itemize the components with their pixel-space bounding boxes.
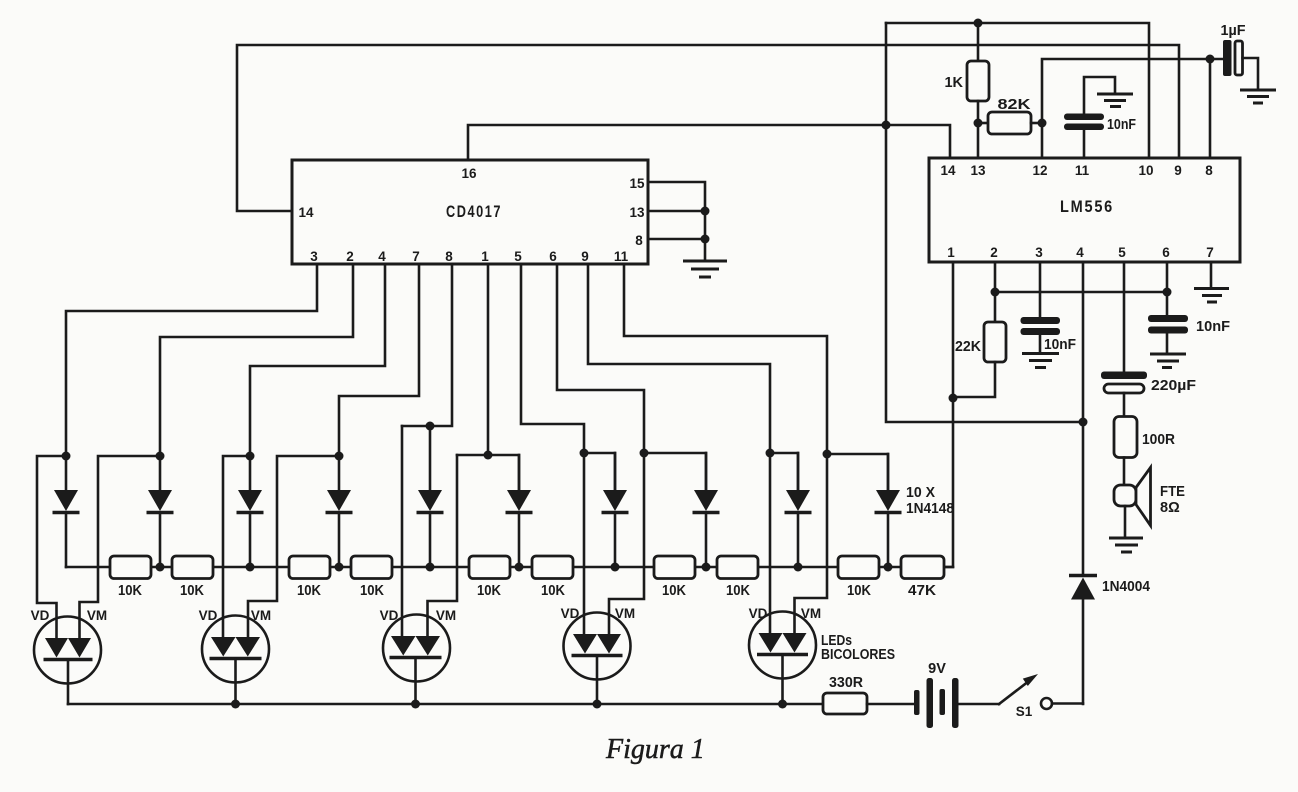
- ground at pin6 cap: [1150, 353, 1186, 356]
- svg-text:S1: S1: [1016, 704, 1033, 719]
- svg-text:7: 7: [1206, 245, 1214, 260]
- svg-text:VD: VD: [561, 606, 580, 621]
- LED4 left chip: [573, 634, 597, 654]
- svg-text:Figura 1: Figura 1: [605, 734, 705, 765]
- node dot bus x706: [702, 563, 711, 572]
- svg-text:10K: 10K: [541, 583, 565, 599]
- LED LED4 bicolor circle: [564, 613, 631, 680]
- svg-text:VM: VM: [251, 608, 271, 623]
- node dot supply junction at pin4 line: [1079, 418, 1088, 427]
- capacitor 10nF at LM556 pin11: [1083, 130, 1086, 158]
- wire LED1 cathode down: [67, 660, 70, 705]
- CD4017 pin8 wire: [648, 238, 705, 241]
- diode D3 1N4148: [249, 456, 252, 490]
- svg-text:10K: 10K: [477, 583, 501, 599]
- wire CD4017 pin2 route to column x160: [160, 264, 353, 456]
- speaker FTE 8ohm: [1123, 458, 1126, 487]
- wire LED4 VD terminal: [583, 453, 586, 638]
- LED1 right chip: [68, 638, 91, 658]
- node dot bottom bus x597: [593, 700, 602, 709]
- resistor R 330R: [823, 693, 867, 714]
- node dot column x519 tap: [484, 451, 493, 460]
- svg-text:10K: 10K: [847, 583, 871, 599]
- resistor R 10K #7: [654, 556, 695, 579]
- svg-text:10K: 10K: [180, 583, 204, 599]
- svg-text:VM: VM: [87, 608, 107, 623]
- node dot bus x888: [884, 563, 893, 572]
- node dot bus x339: [335, 563, 344, 572]
- node dot pin6: [1163, 288, 1172, 297]
- svg-text:15: 15: [629, 176, 645, 191]
- ground at 10nF pin11: [1097, 93, 1133, 96]
- LED5 right chip: [783, 633, 807, 653]
- wire LED4 cathode down: [596, 656, 599, 705]
- svg-text:14: 14: [940, 163, 956, 178]
- svg-text:VD: VD: [749, 606, 768, 621]
- svg-text:10nF: 10nF: [1044, 337, 1076, 353]
- wire cathode ground bus: [68, 703, 823, 706]
- IC U2 LM556 box: [929, 158, 1240, 262]
- wire LED3 VM terminal: [428, 455, 458, 639]
- wire LM556 pin2: [994, 262, 997, 292]
- node dot pin13: [701, 207, 710, 216]
- node dot bus x430: [426, 563, 435, 572]
- diode D4 1N4148: [338, 456, 341, 490]
- svg-text:10K: 10K: [297, 583, 321, 599]
- node dot pin8: [701, 235, 710, 244]
- svg-text:8Ω: 8Ω: [1160, 500, 1180, 516]
- LED3 cathode bar: [390, 656, 442, 660]
- LED3 right chip: [416, 636, 441, 656]
- capacitor 1uF polarized: [1223, 40, 1232, 76]
- svg-text:11: 11: [614, 249, 629, 264]
- node dot tap x644: [640, 449, 649, 458]
- wire battery to switch: [959, 703, 1000, 706]
- diode D8 1N4148: [705, 453, 708, 490]
- resistor R 1K vertical: [977, 23, 980, 61]
- resistor R 47K: [901, 556, 944, 579]
- svg-text:LM556: LM556: [1060, 198, 1114, 216]
- LED2 right chip: [236, 637, 261, 657]
- svg-text:1N4004: 1N4004: [1102, 579, 1150, 595]
- svg-text:82K: 82K: [998, 97, 1032, 113]
- svg-text:VM: VM: [801, 606, 821, 621]
- node dot column x250: [246, 452, 255, 461]
- resistor R 82K horizontal: [978, 122, 988, 125]
- svg-text:1: 1: [481, 249, 489, 264]
- LED4 cathode bar: [572, 654, 623, 658]
- svg-text:2: 2: [990, 245, 998, 260]
- svg-text:5: 5: [1118, 245, 1126, 260]
- svg-text:1K: 1K: [944, 75, 963, 91]
- wire switch to 1N4004: [1052, 702, 1083, 705]
- svg-text:8: 8: [445, 249, 453, 264]
- diode D5 1N4148: [429, 426, 432, 490]
- wire CD4017 pin9 route to column x798: [588, 264, 770, 453]
- wire CD4017 pin8 route to column x430: [402, 264, 452, 426]
- svg-text:VD: VD: [31, 608, 50, 623]
- wire LED1 VD terminal: [37, 456, 66, 640]
- wire 330R to battery: [867, 703, 914, 706]
- wire LM556 pin5 down: [1123, 262, 1126, 372]
- diode D1 1N4148: [65, 456, 68, 490]
- LED2 left chip: [211, 637, 236, 657]
- svg-text:220µF: 220µF: [1151, 378, 1196, 394]
- svg-text:FTE: FTE: [1160, 484, 1185, 500]
- svg-text:9: 9: [1174, 163, 1182, 178]
- LED LED5 bicolor circle: [749, 612, 816, 679]
- diode D6 1N4148: [518, 455, 521, 490]
- node dot bus x798: [794, 563, 803, 572]
- wire resistor chain bus: [66, 566, 953, 569]
- wire V+ vertical rail x886 down to supply node: [886, 23, 1083, 422]
- svg-text:VM: VM: [436, 608, 456, 623]
- resistor R 100R vertical: [1114, 417, 1137, 458]
- wire LED4 VM terminal: [609, 453, 644, 638]
- LED5 cathode bar: [757, 653, 808, 657]
- node dot bus x615: [611, 563, 620, 572]
- wire clock: CD4017 pin14 to LM556 pin9: [237, 45, 1179, 211]
- node dot 82K right on pin12 wire: [1038, 119, 1047, 128]
- svg-text:8: 8: [1205, 163, 1213, 178]
- wire CD4017 pin11 route to column x888: [624, 264, 827, 454]
- svg-text:2: 2: [346, 249, 354, 264]
- LED1 cathode bar: [44, 658, 93, 662]
- wire CD4017 pin6 route to column x706: [557, 264, 644, 453]
- resistor R 10K #8: [717, 556, 758, 579]
- node dot bottom bus x415.5: [411, 700, 420, 709]
- svg-text:3: 3: [1035, 245, 1043, 260]
- node dot column x66: [62, 452, 71, 461]
- LED LED3 bicolor circle: [383, 615, 450, 682]
- svg-text:13: 13: [970, 163, 986, 178]
- wire CD4017 pin3 route to column x66: [66, 264, 317, 456]
- svg-text:VD: VD: [199, 608, 218, 623]
- svg-text:3: 3: [310, 249, 318, 264]
- wire LM556 pin1 down to 47K: [944, 262, 953, 567]
- node dot column x339: [335, 452, 344, 461]
- wire LM556 pin3: [1039, 262, 1042, 317]
- node dot tap x827: [823, 450, 832, 459]
- wire V+ top rail to LM556 pin10: [886, 23, 1149, 158]
- svg-text:4: 4: [378, 249, 386, 264]
- node dot bus x250: [246, 563, 255, 572]
- resistor R 10K #4: [351, 556, 392, 579]
- wire LM556 pin6 down: [1166, 262, 1169, 315]
- wire CD4017 pin1 route to column x519: [487, 264, 490, 455]
- svg-text:100R: 100R: [1142, 432, 1175, 448]
- svg-text:10K: 10K: [118, 583, 142, 599]
- diode D10 1N4148: [887, 454, 890, 490]
- switch S1 blade: [999, 681, 1029, 704]
- node dot tap x770: [766, 449, 775, 458]
- node dot bus x519: [515, 563, 524, 572]
- svg-text:1µF: 1µF: [1221, 23, 1246, 39]
- svg-text:10nF: 10nF: [1196, 319, 1230, 335]
- node dot column x430: [426, 422, 435, 431]
- CD4017 pin15 wire: [648, 182, 705, 261]
- wire LM556 pin7: [1210, 262, 1213, 289]
- wire LM556 pin4 down to 1N4004: [1082, 262, 1085, 576]
- resistor R 10K #1: [110, 556, 151, 579]
- svg-text:VM: VM: [615, 606, 635, 621]
- LED4 right chip: [597, 634, 621, 654]
- diode D7 1N4148: [614, 453, 617, 490]
- svg-text:1N4148: 1N4148: [906, 501, 954, 517]
- capacitor 220uF polarized: [1101, 372, 1147, 380]
- node dot V+ rail junction x886: [882, 121, 891, 130]
- wire V+ sub-rail: CD4017 pin16 to LM556 pin14: [468, 125, 950, 160]
- wire LED5 VD terminal: [769, 453, 772, 637]
- wire LED5 VM terminal: [795, 454, 828, 637]
- node dot 1K-82K junction pin13: [974, 119, 983, 128]
- resistor R 22K vertical: [994, 292, 997, 322]
- LED3 left chip: [391, 636, 416, 656]
- svg-text:10nF: 10nF: [1107, 117, 1136, 133]
- svg-text:10K: 10K: [662, 583, 686, 599]
- wire CD4017 pin5 route to column x615: [521, 264, 584, 453]
- wire pin2-pin6 bus: [995, 291, 1167, 294]
- svg-text:8: 8: [635, 233, 643, 248]
- svg-text:16: 16: [461, 166, 477, 181]
- capacitor 10nF at pin6: [1148, 315, 1188, 322]
- node dot pin1-22K junction: [949, 394, 958, 403]
- LED2 cathode bar: [210, 657, 262, 661]
- svg-text:14: 14: [298, 205, 314, 220]
- svg-text:12: 12: [1032, 163, 1047, 178]
- node dot pin8 branch on pin12 wire: [1206, 55, 1215, 64]
- svg-text:4: 4: [1076, 245, 1084, 260]
- svg-text:9: 9: [581, 249, 589, 264]
- battery B1 9V: [914, 690, 920, 715]
- svg-text:1: 1: [947, 245, 955, 260]
- capacitor 10nF at pin3: [1021, 317, 1061, 324]
- node dot bus x160: [156, 563, 165, 572]
- resistor R 10K #2: [172, 556, 213, 579]
- CD4017 pin13 wire: [648, 210, 705, 213]
- ground at pin7: [1194, 287, 1229, 290]
- switch S1 contact: [1041, 698, 1052, 709]
- node dot pin2: [991, 288, 1000, 297]
- LED5 left chip: [759, 633, 783, 653]
- node dot column x160: [156, 452, 165, 461]
- svg-text:9V: 9V: [928, 661, 946, 677]
- svg-text:10K: 10K: [726, 583, 750, 599]
- LED1 left chip: [45, 638, 68, 658]
- svg-text:6: 6: [1162, 245, 1170, 260]
- svg-text:13: 13: [629, 205, 645, 220]
- node dot bottom bus x235.5: [231, 700, 240, 709]
- node dot 1K top on V+ rail: [974, 19, 983, 28]
- svg-text:22K: 22K: [955, 339, 982, 355]
- svg-text:VD: VD: [380, 608, 399, 623]
- LED LED1 bicolor circle: [34, 617, 101, 684]
- LED LED2 bicolor circle: [202, 616, 269, 683]
- svg-text:10 X: 10 X: [906, 485, 935, 501]
- node dot tap x584: [580, 449, 589, 458]
- wire LM556 pin12 to 1uF: [1042, 59, 1223, 158]
- svg-text:6: 6: [549, 249, 557, 264]
- svg-text:7: 7: [412, 249, 420, 264]
- IC U1 CD4017 box: [292, 160, 648, 264]
- diode D2 1N4148: [159, 456, 162, 490]
- svg-text:BICOLORES: BICOLORES: [821, 647, 895, 663]
- resistor R 10K #3: [289, 556, 330, 579]
- svg-text:330R: 330R: [829, 675, 864, 691]
- svg-text:10: 10: [1138, 163, 1153, 178]
- diode D9 1N4148: [797, 453, 800, 490]
- resistor R 10K #9: [838, 556, 879, 579]
- wire LED2 VM terminal: [248, 456, 339, 639]
- wire CD4017 pin4 route to column x250: [250, 264, 385, 456]
- svg-text:CD4017: CD4017: [446, 203, 502, 221]
- wire LED1 VM terminal: [80, 456, 161, 640]
- wire LED3 VD terminal: [401, 426, 404, 639]
- wire LED5 cathode down: [781, 655, 784, 705]
- wire LED2 cathode down: [234, 659, 237, 705]
- svg-text:11: 11: [1075, 163, 1090, 178]
- ground at pin3 cap: [1022, 352, 1059, 355]
- wire CD4017 pin7 route to column x339: [339, 264, 419, 456]
- wire LED2 VD terminal: [223, 456, 250, 639]
- wire LED3 cathode down: [414, 658, 417, 705]
- svg-text:5: 5: [514, 249, 522, 264]
- resistor R 10K #6: [532, 556, 573, 579]
- wire LM556 pin8 branch: [1209, 59, 1212, 158]
- svg-text:47K: 47K: [908, 583, 937, 599]
- ground at 1uF: [1240, 89, 1276, 92]
- resistor R 10K #5: [469, 556, 510, 579]
- svg-text:10K: 10K: [360, 583, 384, 599]
- diode D11 1N4004: [1069, 574, 1097, 578]
- node dot bottom bus x782.5: [778, 700, 787, 709]
- ground at CD4017 pins 15-13-8: [683, 260, 727, 263]
- ground at speaker: [1109, 537, 1143, 540]
